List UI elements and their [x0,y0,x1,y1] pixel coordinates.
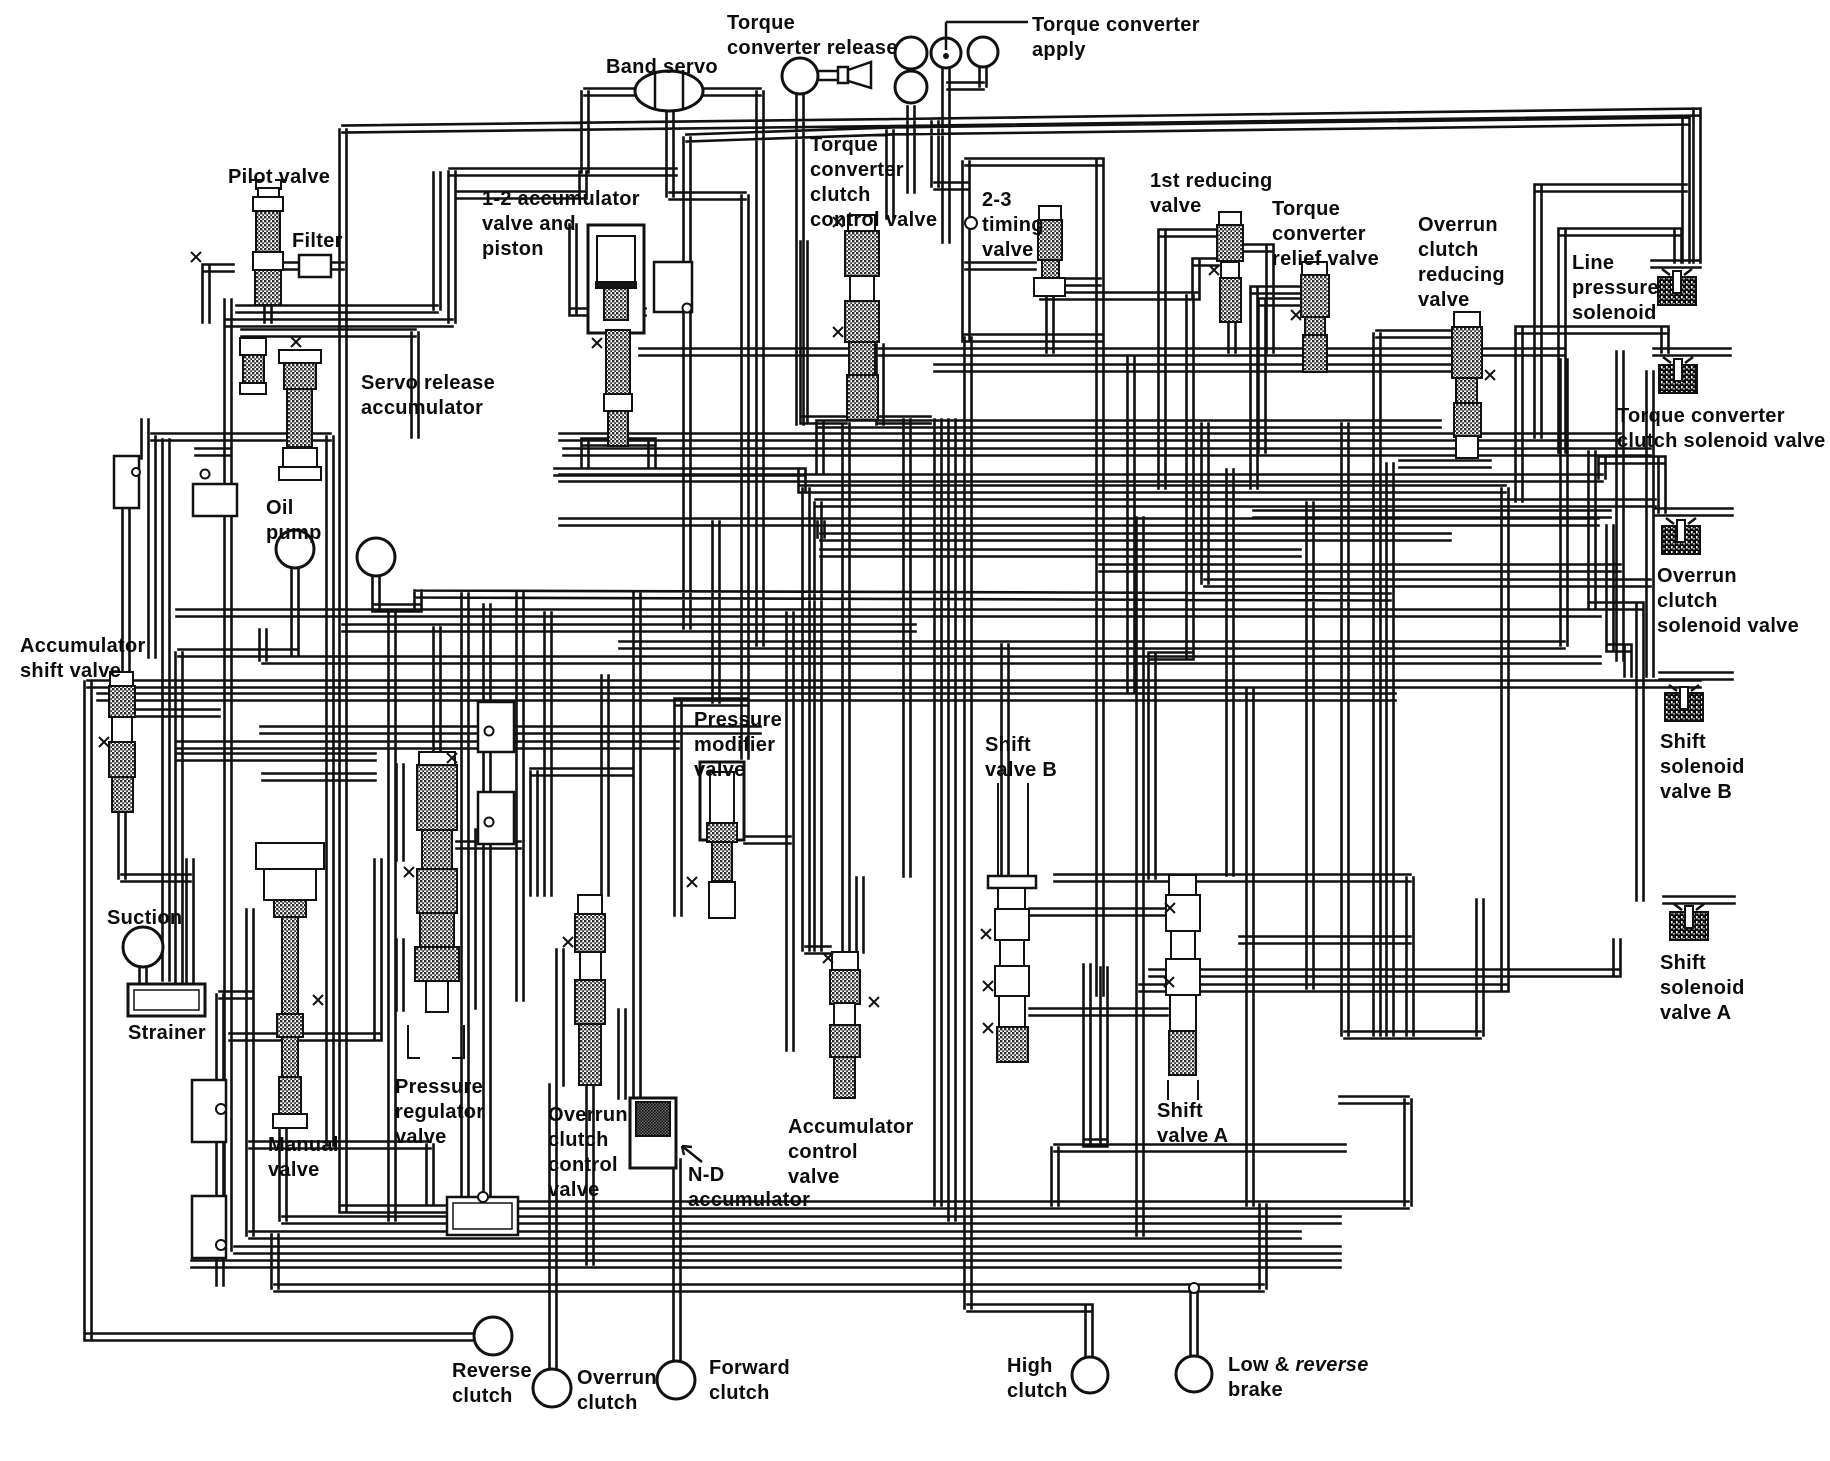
svg-text:converter release: converter release [727,37,898,59]
svg-text:accumulator: accumulator [688,1189,810,1211]
svg-text:Reverse: Reverse [452,1360,532,1382]
svg-text:reducing: reducing [1418,264,1505,286]
svg-text:apply: apply [1032,39,1086,61]
svg-text:Torque: Torque [810,134,878,156]
svg-text:Oil: Oil [266,497,294,519]
svg-text:accumulator: accumulator [361,397,483,419]
svg-text:regulator: regulator [395,1101,484,1123]
svg-text:Overrun: Overrun [577,1367,657,1389]
svg-text:clutch: clutch [1418,239,1479,261]
svg-text:clutch solenoid valve: clutch solenoid valve [1617,430,1826,452]
svg-text:Filter: Filter [292,230,343,252]
svg-text:solenoid: solenoid [1660,977,1745,999]
svg-text:Torque: Torque [727,12,795,34]
svg-text:Torque converter: Torque converter [1032,14,1200,36]
svg-text:High: High [1007,1355,1053,1377]
svg-text:Overrun: Overrun [548,1104,628,1126]
svg-text:valve: valve [1418,289,1470,311]
svg-text:clutch: clutch [1657,590,1718,612]
svg-text:control valve: control valve [810,209,937,231]
svg-text:1st reducing: 1st reducing [1150,170,1273,192]
svg-text:control: control [788,1141,858,1163]
svg-text:Accumulator: Accumulator [788,1116,914,1138]
svg-text:Overrun: Overrun [1657,565,1737,587]
svg-text:clutch: clutch [810,184,871,206]
svg-text:valve A: valve A [1660,1002,1731,1024]
svg-text:Torque: Torque [1272,198,1340,220]
svg-text:2-3: 2-3 [982,189,1012,211]
svg-text:Strainer: Strainer [128,1022,206,1044]
svg-text:Overrun: Overrun [1418,214,1498,236]
svg-text:valve: valve [982,239,1034,261]
svg-text:Pressure: Pressure [694,709,782,731]
svg-text:pump: pump [266,522,322,544]
svg-text:piston: piston [482,238,544,260]
svg-text:solenoid: solenoid [1572,302,1657,324]
svg-text:brake: brake [1228,1379,1283,1401]
svg-text:N-D: N-D [688,1164,724,1186]
svg-text:Shift: Shift [1660,731,1706,753]
svg-text:Torque converter: Torque converter [1617,405,1785,427]
svg-text:modifier: modifier [694,734,775,756]
svg-text:clutch: clutch [1007,1380,1068,1402]
svg-text:Manual: Manual [268,1134,339,1156]
svg-text:converter: converter [1272,223,1366,245]
svg-text:converter: converter [810,159,904,181]
svg-text:Shift: Shift [1157,1100,1203,1122]
svg-text:solenoid valve: solenoid valve [1657,615,1799,637]
svg-text:Forward: Forward [709,1357,790,1379]
svg-text:Low & reverse: Low & reverse [1228,1354,1369,1376]
svg-text:valve: valve [788,1166,840,1188]
svg-text:1-2 accumulator: 1-2 accumulator [482,188,640,210]
svg-text:clutch: clutch [709,1382,770,1404]
svg-text:shift valve: shift valve [20,660,121,682]
svg-text:solenoid: solenoid [1660,756,1745,778]
svg-text:pressure: pressure [1572,277,1659,299]
svg-text:valve: valve [548,1179,600,1201]
svg-text:timing: timing [982,214,1044,236]
svg-text:relief valve: relief valve [1272,248,1379,270]
svg-text:valve: valve [694,759,746,781]
svg-text:clutch: clutch [577,1392,638,1414]
svg-text:Pressure: Pressure [395,1076,483,1098]
svg-text:Accumulator: Accumulator [20,635,146,657]
svg-text:valve: valve [1150,195,1202,217]
svg-text:Shift: Shift [1660,952,1706,974]
svg-text:valve: valve [268,1159,320,1181]
svg-text:Band servo: Band servo [606,56,718,78]
svg-text:Servo release: Servo release [361,372,495,394]
svg-text:clutch: clutch [452,1385,513,1407]
svg-text:valve B: valve B [1660,781,1732,803]
svg-text:valve B: valve B [985,759,1057,781]
svg-text:Pilot valve: Pilot valve [228,166,330,188]
svg-text:valve: valve [395,1126,447,1148]
svg-text:valve and: valve and [482,213,576,235]
svg-text:clutch: clutch [548,1129,609,1151]
svg-text:valve A: valve A [1157,1125,1228,1147]
svg-text:Suction: Suction [107,907,182,929]
svg-text:control: control [548,1154,618,1176]
svg-text:Line: Line [1572,252,1614,274]
svg-text:Shift: Shift [985,734,1031,756]
